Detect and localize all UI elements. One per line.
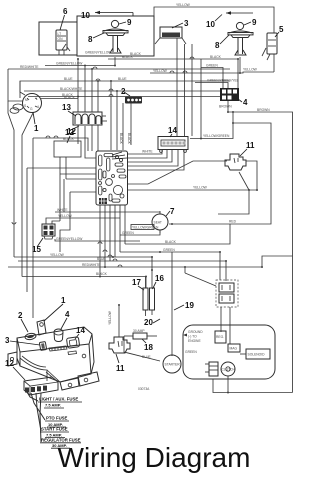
svg-text:GREEN/YELLOW: GREEN/YELLOW [85,51,112,55]
svg-text:SEAT: SEAT [154,221,162,225]
svg-text:9: 9 [252,18,257,27]
svg-text:2: 2 [18,311,23,320]
svg-text:03073A: 03073A [138,387,150,391]
wire black mid bus 2 [22,272,146,288]
svg-text:BLACK: BLACK [119,133,123,145]
label 10 right [206,15,222,30]
svg-text:BROWN: BROWN [257,108,270,112]
svg-text:5: 5 [279,25,284,34]
label 12 console [5,359,25,380]
svg-text:6: 6 [63,7,68,16]
wire plug 11 right arm [239,161,257,190]
svg-text:20: 20 [144,318,153,327]
svg-text:BLACK: BLACK [210,55,222,59]
svg-text:10: 10 [206,20,215,29]
engine block [183,325,275,379]
connector 15 [42,224,55,239]
fuel sender float right (8/9) [228,22,253,55]
wire from dome1 pedestal down [114,57,116,66]
label 19 [174,301,194,310]
fuse label light/aux [38,397,82,409]
label 16 [153,274,165,289]
wire comp3 pin verticals [177,38,192,136]
label 20 [144,318,160,327]
label 12 (near fuse block) [67,126,79,136]
solenoid box [240,349,270,359]
svg-text:BLUE: BLUE [142,355,151,359]
svg-text:PTO FUSE: PTO FUSE [46,416,68,421]
fuel sender float left (8/9) [103,20,128,53]
svg-text:11: 11 [246,141,255,150]
wire yellow/green at seat [131,225,159,230]
svg-text:16: 16 [155,274,164,283]
wire blue bus [20,77,230,98]
label 17 [132,278,144,290]
svg-text:LT: LT [58,32,62,36]
key slot 2 on console [25,333,37,341]
vent slots on console [49,346,77,355]
label 14 [168,126,177,137]
wire white stubs module right [128,150,184,170]
label 8 left [88,33,104,44]
connector 12 harness [24,372,58,395]
wire yellow drop to plug 11 [108,305,119,337]
svg-text:YELLOW/GREEN: YELLOW/GREEN [203,134,230,138]
console body [17,327,94,382]
svg-text:BLACK/WHITE: BLACK/WHITE [60,87,83,91]
wire fuse block drops [78,125,98,151]
label 4 [238,98,248,107]
svg-text:GROUND: GROUND [188,330,203,334]
wire black bus 2 [28,93,230,97]
label 9 left [119,18,132,27]
starter motor [163,355,181,373]
label 15 [32,238,43,254]
svg-text:YELLOW: YELLOW [50,253,65,257]
svg-text:BLUE: BLUE [64,77,73,81]
fuse 18 (30 amp) [124,329,157,339]
fuse label regulator [40,437,81,448]
svg-text:START FUSE: START FUSE [41,427,68,432]
svg-text:BLACK: BLACK [127,133,131,145]
label 7 [166,207,175,216]
wire green/yellow lower [45,62,115,66]
console right feet [60,372,99,390]
fuse holder 16 [150,270,155,315]
ignition switch 1 [23,94,42,113]
svg-text:8: 8 [215,41,220,50]
label 4 console [61,310,70,329]
wire green mid bus [120,248,220,280]
wire yellow mid bus [14,253,152,270]
svg-text:BLUE: BLUE [97,257,106,261]
wire hop bumps [12,57,194,267]
svg-text:2: 2 [121,87,126,96]
svg-text:GREEN: GREEN [163,248,175,252]
seat switch 7 [152,211,168,233]
wire brown to right edge [219,101,293,393]
relay 6 pins [59,47,70,55]
svg-text:RED/WHITE: RED/WHITE [82,263,101,267]
wire green/yellow to connector 4 [195,79,239,89]
svg-text:BROWN: BROWN [219,105,232,109]
wire drops from connector 2 [111,81,131,150]
wire module bottom drops [100,205,125,276]
switch 14 on console [66,337,79,349]
wire black mid bus [125,224,230,244]
wire green/yellow from 15 [52,221,140,241]
svg-text:GREEN: GREEN [122,231,134,235]
connector 2 block [125,97,142,104]
wire fuse block risers [64,59,98,112]
svg-text:14: 14 [76,326,85,335]
wire diagonal into relay box [184,267,186,273]
wire yellow mid right [128,186,257,190]
wire module left stubs [27,126,96,192]
svg-text:MAG: MAG [230,347,238,351]
svg-text:13: 13 [62,103,71,112]
svg-text:BLACK: BLACK [122,55,134,59]
label 6 [60,7,68,30]
control module U1 [96,151,128,205]
wire green at seat [120,230,160,235]
label 11 lower [116,354,125,373]
svg-text:1: 1 [61,296,66,305]
fuse label pto [45,416,69,428]
wire blue mid bus [18,257,226,281]
label 3 console [5,336,40,345]
svg-text:LIGHT / AUX. FUSE: LIGHT / AUX. FUSE [39,397,78,402]
wire black bus [108,55,238,88]
connector 14 [158,137,188,153]
fuse block 13 [73,112,107,125]
svg-text:WHITE: WHITE [142,150,153,154]
svg-text:3: 3 [5,336,10,345]
wire green to connector 4 [201,64,223,89]
wire red vertical right [169,123,271,224]
relay box dashed [216,280,238,307]
knob 4 on console [54,329,63,342]
svg-text:G: G [30,107,33,111]
svg-text:GREEN: GREEN [206,64,218,68]
label 9 right [244,18,257,27]
label 13 [62,103,76,116]
svg-text:1: 1 [34,124,39,133]
switch 3 on console [39,342,46,351]
wire yellow/green from 14 [190,112,233,139]
wire red/white bus [8,65,230,69]
svg-text:BLACK: BLACK [165,240,177,244]
console inner detail hole [82,354,86,358]
wire relay box drops to engine [221,307,230,344]
svg-text:GREEN/YELLOW: GREEN/YELLOW [56,62,83,66]
svg-text:YELLOW: YELLOW [176,3,191,7]
svg-text:18: 18 [144,343,153,352]
svg-text:14: 14 [168,126,177,135]
label 3 [172,19,189,28]
label 1 [33,112,39,133]
label 2 console [18,311,28,332]
wire white to 15 [55,208,160,214]
wire vertical x201 [200,59,202,139]
label 14 console [75,326,85,339]
label 8 right [215,35,229,50]
starter solenoid stack [205,362,218,376]
arrow 10 right [226,11,253,15]
connector 4 block [220,88,239,101]
svg-text:WHITE: WHITE [57,208,68,212]
wire left risers long [60,174,70,252]
label 11 upper [240,141,255,156]
fuse label start [40,427,69,438]
svg-text:RED: RED [229,220,237,224]
relay 5 body [262,33,277,60]
wire yellow bus right [150,54,274,73]
svg-text:12: 12 [65,128,74,137]
svg-text:ENGINE: ENGINE [188,339,201,343]
key oval [10,104,23,113]
regulator box [215,331,226,343]
svg-text:YELLOW/GREEN: YELLOW/GREEN [132,226,159,230]
wire yellow to 15 [46,214,120,224]
svg-text:RED/WHITE: RED/WHITE [20,65,39,69]
label 1 console [44,296,66,321]
wire 19 vertical [171,252,173,356]
label 2 [121,87,130,96]
svg-text:4: 4 [243,98,248,107]
enclosure box right (fuel sender) [77,16,154,56]
svg-text:BLACK: BLACK [96,272,108,276]
svg-text:BLACK: BLACK [64,96,76,100]
label 5 [275,25,284,37]
svg-text:YELLOW: YELLOW [153,69,168,73]
wire black/white bus [24,87,230,91]
svg-text:12: 12 [5,359,14,368]
wire ignition to bus [41,96,79,99]
console left foot [8,352,17,366]
wire red/white mid bus [8,256,293,267]
svg-text:REG.: REG. [216,335,224,339]
svg-text:11: 11 [116,364,125,373]
svg-text:BLUE: BLUE [118,77,127,81]
svg-text:YELLOW: YELLOW [193,186,208,190]
svg-text:STARTER: STARTER [165,363,181,367]
svg-text:9: 9 [127,18,132,27]
wire left verticals [8,69,33,318]
svg-text:GREY/YEL: GREY/YEL [222,79,239,83]
enclosure box left (fuel tank) [39,22,77,55]
wire yellow top [154,3,274,33]
wire blue to starter [124,336,160,361]
wire L below plug 11 [218,190,249,214]
svg-text:GREEN: GREEN [185,350,197,354]
wire plug 11 left arm diagonal [128,161,227,184]
wire dome2 pedestal to yellow bus [239,57,241,73]
svg-text:(-) TO: (-) TO [188,335,197,339]
svg-text:17: 17 [132,278,141,287]
svg-text:3: 3 [184,19,189,28]
label 18 [142,339,153,352]
ground to engine text [183,330,203,343]
svg-text:SOLENOID: SOLENOID [248,353,266,357]
fuse holder 17 [143,277,148,317]
svg-text:4: 4 [65,310,70,319]
svg-text:7.5 AMP.: 7.5 AMP. [45,403,61,408]
relay 6 body [56,30,67,50]
svg-text:30 AMP: 30 AMP [133,329,145,333]
svg-text:YELLOW: YELLOW [243,68,258,72]
clutch circle [221,362,235,376]
plug 11 lower [109,337,130,353]
svg-text:YELLOW: YELLOW [108,310,112,325]
svg-text:7: 7 [170,207,175,216]
label 12 top [65,128,74,143]
svg-text:8: 8 [88,35,93,44]
plug 11 upper [225,154,246,170]
svg-text:Wiring Diagram: Wiring Diagram [58,442,251,473]
fuse wire leads [27,392,45,442]
svg-text:10: 10 [81,11,90,20]
hour meter 12 box [54,137,81,179]
arrow 10 left [95,11,133,16]
magneto box [228,344,240,352]
svg-text:19: 19 [185,301,194,310]
svg-text:ON: ON [58,37,64,41]
component 3 (connector) [155,27,186,44]
wire engine bottom loop [213,379,293,393]
bracket 1 on console [37,320,46,335]
